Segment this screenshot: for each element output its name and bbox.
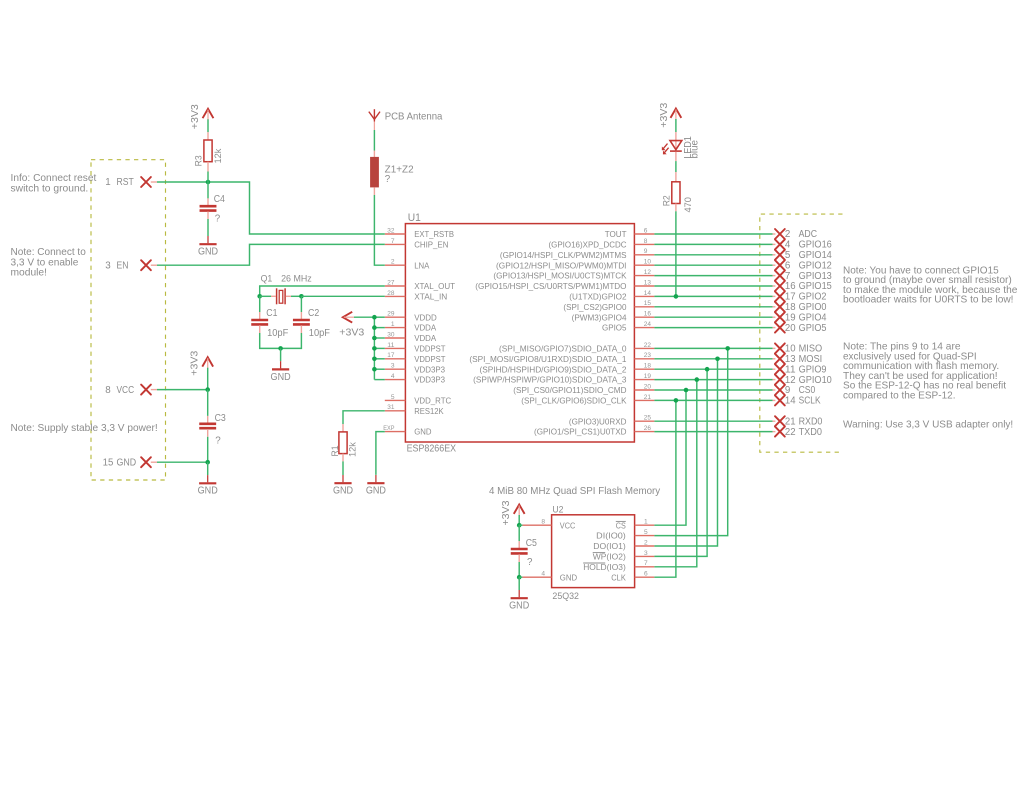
svg-text:GPIO15: GPIO15: [799, 281, 833, 292]
svg-text:VDDPST: VDDPST: [414, 354, 446, 364]
svg-text:2: 2: [644, 539, 648, 546]
wire net CS0 to header: [654, 389, 772, 391]
wire node to C1: [259, 296, 261, 312]
svg-text:19: 19: [785, 312, 796, 323]
wire net ADC to header: [654, 233, 772, 235]
svg-text:12k: 12k: [347, 442, 358, 457]
wire RST net to C4: [207, 182, 209, 198]
svg-text:8: 8: [541, 519, 545, 526]
pin C5 top lead: [518, 541, 520, 548]
pin C3 bottom lead: [207, 429, 209, 437]
wire antenna to Z1+Z2: [373, 130, 375, 151]
svg-text:LNA: LNA: [414, 260, 429, 270]
node CS0 junction: [684, 388, 689, 393]
pin U2 pin 1 stub: [635, 524, 655, 526]
pin TXD0 pin stub: [773, 431, 776, 433]
pin GPIO0 pin stub: [773, 306, 776, 308]
pin R3 bottom lead: [207, 162, 209, 172]
svg-text:12k: 12k: [212, 148, 223, 163]
svg-text:GND: GND: [333, 486, 353, 497]
label U2 overline WP(IO2): [593, 552, 606, 554]
pin GPIO10 pin stub: [773, 379, 776, 381]
svg-text:VDD3P3: VDD3P3: [414, 364, 445, 374]
IC U1 ESP8266EX box: [405, 224, 634, 442]
node MISO junction: [725, 346, 730, 351]
pin C4 bottom lead: [207, 212, 209, 220]
svg-text:C5: C5: [526, 538, 538, 549]
svg-text:GPIO9: GPIO9: [799, 364, 827, 375]
svg-text:(GPIO3)U0RXD: (GPIO3)U0RXD: [569, 416, 627, 426]
svg-text:7: 7: [785, 271, 790, 282]
pin CS0 pin stub: [773, 389, 776, 391]
wire net GPIO16 to header: [654, 243, 772, 245]
svg-text:VDDA: VDDA: [414, 333, 436, 343]
connector pin 7 GPIO13 (X): [775, 271, 785, 281]
pin U1 pin 13 stub: [634, 285, 654, 287]
wire net SCLK (U2 CLK): [654, 400, 676, 577]
svg-text:GND: GND: [366, 486, 386, 497]
svg-text:1: 1: [391, 321, 395, 328]
svg-text:EXP: EXP: [383, 425, 395, 432]
node VDD rail junction r9: [372, 325, 377, 330]
connector pin 13 MOSI (X): [775, 354, 785, 364]
pin Z1+Z2 top lead: [373, 151, 375, 158]
node VDD rail junction r12: [372, 357, 377, 362]
svg-text:EN: EN: [117, 260, 129, 271]
svg-text:1: 1: [105, 177, 110, 188]
pin MISO pin stub: [773, 347, 776, 349]
svg-text:GPIO2: GPIO2: [799, 292, 827, 303]
svg-text:10: 10: [785, 344, 796, 355]
wire node to C2: [300, 296, 302, 312]
svg-text:11: 11: [785, 364, 796, 375]
wire GND pin to node: [157, 461, 208, 463]
pin GPIO9 pin stub: [773, 368, 776, 370]
pin R2 top lead: [675, 172, 677, 182]
pin U2 pin 3 stub: [635, 555, 655, 557]
svg-text:32: 32: [387, 227, 395, 234]
wire GND node down: [207, 462, 209, 475]
pin U1 pin 6 stub: [634, 233, 654, 235]
wire net GPIO10 (U2 HOLD): [654, 380, 696, 567]
svg-text:+3V3: +3V3: [189, 350, 200, 375]
wire +3V3 to VCC node: [207, 368, 209, 390]
wire net MISO to header: [654, 347, 772, 349]
pin Q1 right lead: [286, 295, 291, 297]
pin GPIO5 pin stub: [773, 327, 776, 329]
capacitor C3: [199, 424, 216, 428]
connector pin 3 EN (X): [141, 260, 151, 270]
svg-text:RXD0: RXD0: [799, 416, 823, 427]
svg-text:Warning: Use 3,3 V USB adapter: Warning: Use 3,3 V USB adapter only!: [843, 420, 1013, 431]
svg-text:18: 18: [644, 363, 652, 370]
svg-text:(SPIWP/HSPIWP/GPIO10)SDIO_DATA: (SPIWP/HSPIWP/GPIO10)SDIO_DATA_3: [473, 375, 627, 385]
pin U1 pin 8 stub: [634, 243, 654, 245]
node GPIO10 junction: [695, 377, 700, 382]
pin U2 pin 6 stub: [635, 576, 655, 578]
pin GPIO2 pin stub: [773, 295, 776, 297]
connector pin 15 GND (X): [141, 457, 151, 467]
pin U1 pin 32 stub: [385, 233, 406, 235]
node RST/R3/C4 junction: [206, 180, 211, 185]
ground below C4: [199, 236, 216, 244]
pin U1 pin 4 stub: [385, 379, 406, 381]
wire +3V3 to R3: [207, 119, 209, 132]
wire +3V3 to VDDD: [354, 316, 374, 318]
svg-text:GPIO12: GPIO12: [799, 260, 832, 271]
pin R1 top lead: [342, 424, 344, 432]
svg-text:MISO: MISO: [799, 344, 823, 355]
wire +3V3 to LED1: [675, 119, 677, 132]
resistor R1 body: [339, 432, 347, 454]
svg-text:ADC: ADC: [799, 229, 817, 240]
wire net GPIO2 to header: [654, 295, 772, 297]
svg-text:17: 17: [785, 292, 796, 303]
svg-text:9: 9: [644, 248, 648, 255]
svg-text:+3V3: +3V3: [339, 327, 364, 338]
node C5/GND node: [517, 575, 522, 580]
svg-text:+3V3: +3V3: [501, 500, 512, 525]
wire VCC pin to node: [157, 389, 208, 391]
pin MOSI pin stub: [773, 358, 776, 360]
svg-text:18: 18: [785, 302, 796, 313]
wire net MOSI (U2 DO): [654, 359, 717, 546]
svg-text:GPIO4: GPIO4: [799, 312, 827, 323]
pin U1 pin 31 stub: [385, 410, 406, 412]
wire Z1+Z2 to LNA: [374, 195, 384, 265]
pin U1 pin 30 stub: [385, 337, 406, 339]
svg-text:3: 3: [644, 550, 648, 557]
connector pin 16 GPIO15 (X): [775, 281, 785, 291]
svg-text:RES12K: RES12K: [414, 406, 444, 416]
wire net GPIO0 to header: [654, 306, 772, 308]
svg-text:CS0: CS0: [799, 385, 816, 396]
wire node to VCC pin: [519, 524, 522, 526]
pin R3 top lead: [207, 132, 209, 140]
connector pin 5 GPIO14 (X): [775, 250, 785, 260]
svg-text:SCLK: SCLK: [799, 396, 821, 407]
svg-text:GPIO10: GPIO10: [799, 375, 833, 386]
wire node to Q1: [260, 295, 271, 297]
node SCLK junction: [674, 398, 679, 403]
connector pin 1 RST (X): [141, 177, 151, 187]
connector pin 17 GPIO2 (X): [775, 291, 785, 301]
svg-text:12: 12: [785, 375, 796, 386]
capacitor C1: [251, 320, 268, 324]
svg-text:8: 8: [105, 385, 111, 396]
pin GPIO13 pin stub: [773, 275, 776, 277]
pin U1 pin 3 stub: [385, 368, 406, 370]
svg-text:15: 15: [644, 300, 652, 307]
svg-text:Note: Connect to3,3 V to enabl: Note: Connect to3,3 V to enablemodule!: [11, 247, 87, 279]
svg-text:24: 24: [644, 321, 652, 328]
svg-text:7: 7: [391, 238, 395, 245]
svg-text:25: 25: [644, 415, 652, 422]
pin U1 pin 20 stub: [634, 389, 654, 391]
wire C1 to GND rail: [260, 333, 281, 348]
connector pin 2 ADC (X): [775, 229, 785, 239]
node C5/VCC node: [517, 523, 522, 528]
pin U1 pin 26 stub: [634, 431, 654, 433]
pin U1 pin 9 stub: [634, 254, 654, 256]
svg-text:C1: C1: [266, 308, 277, 319]
svg-text:GPIO5: GPIO5: [602, 323, 627, 333]
svg-text:4 MiB 80 MHz Quad SPI Flash Me: 4 MiB 80 MHz Quad SPI Flash Memory: [489, 486, 661, 497]
wire Q1 to node: [291, 295, 301, 297]
wire antenna lead: [373, 122, 375, 131]
svg-text:(GPIO1/SPI_CS1)U0TXD: (GPIO1/SPI_CS1)U0TXD: [534, 427, 627, 437]
svg-text:RST: RST: [117, 177, 134, 188]
svg-text:(PWM3)GPIO4: (PWM3)GPIO4: [572, 312, 627, 322]
pin SCLK pin stub: [773, 399, 776, 401]
svg-text:DI(IO0): DI(IO0): [596, 531, 626, 541]
pin U1 pin 29 stub: [385, 316, 406, 318]
connector pin 18 GPIO0 (X): [775, 302, 785, 312]
pin LED1 inner lead: [675, 141, 677, 151]
supply +3V3 above LED1: [671, 109, 682, 120]
svg-text:25Q32: 25Q32: [552, 591, 579, 601]
wire net RXD0 to header: [654, 420, 772, 422]
pin RXD0 pin stub: [773, 420, 776, 422]
svg-text:?: ?: [385, 174, 391, 185]
wire VDD rail to pin row 9: [374, 327, 384, 329]
svg-text:(SPI_MOSI/GPIO8/U1RXD)SDIO_DAT: (SPI_MOSI/GPIO8/U1RXD)SDIO_DATA_1: [469, 354, 626, 364]
svg-text:R2: R2: [661, 195, 672, 206]
svg-text:GND: GND: [414, 427, 431, 437]
right dashed frame (connector group, open right side): [760, 214, 843, 452]
svg-text:14: 14: [785, 396, 796, 407]
svg-text:VDD_RTC: VDD_RTC: [414, 396, 451, 406]
wire R2 to GPIO2 net: [675, 211, 677, 296]
svg-text:CLK: CLK: [611, 572, 626, 582]
pin ADC pin stub: [773, 233, 776, 235]
svg-text:VDDD: VDDD: [414, 312, 437, 322]
wire VCC node to C3: [207, 390, 209, 416]
svg-text:31: 31: [387, 404, 395, 411]
pin U1 pin 5 stub: [385, 399, 406, 401]
node XTAL GND node: [278, 346, 283, 351]
svg-text:21: 21: [644, 394, 652, 401]
svg-text:(GPIO14/HSPI_CLK/PWM2)MTMS: (GPIO14/HSPI_CLK/PWM2)MTMS: [500, 250, 627, 260]
pin C2 top lead: [300, 312, 302, 319]
svg-text:30: 30: [387, 331, 395, 338]
pin U1 pin 25 stub: [634, 420, 654, 422]
ground below C3: [199, 475, 216, 483]
connector pin 10 MISO (X): [775, 343, 785, 353]
svg-text:VCC: VCC: [117, 385, 135, 396]
pin U1 pin 11 stub: [385, 347, 406, 349]
wire XTAL_OUT net: [260, 286, 385, 296]
svg-text:26 MHz: 26 MHz: [281, 273, 312, 283]
wire net SCLK to header: [654, 399, 772, 401]
ground below C1 C2: [272, 361, 289, 369]
svg-text:C2: C2: [308, 308, 319, 319]
wire R3 to RST net: [207, 172, 209, 183]
node MOSI junction: [715, 357, 720, 362]
supply +3V3 above C5: [514, 505, 525, 516]
ground below R1: [334, 475, 351, 483]
wire RST to EXT_RSTB: [157, 182, 385, 234]
wire net GPIO9 to header: [654, 368, 772, 370]
wire VDD rail to pin row 10: [374, 337, 384, 339]
ground below C5: [511, 590, 528, 598]
pin U1 pin 22 stub: [634, 347, 654, 349]
pin U1 pin 10 stub: [634, 264, 654, 266]
wire net MISO (U2 DI): [654, 348, 727, 535]
connector pin 11 GPIO9 (X): [775, 364, 785, 374]
svg-text:6: 6: [644, 571, 648, 578]
pin C4 top lead: [207, 198, 209, 205]
svg-text:17: 17: [387, 352, 395, 359]
pin R2 bottom lead: [675, 204, 677, 212]
pin U1 pin 17 stub: [385, 358, 406, 360]
svg-text:XTAL_OUT: XTAL_OUT: [414, 281, 456, 291]
svg-text:PCB Antenna: PCB Antenna: [385, 112, 443, 123]
wire C4 to GND: [207, 219, 209, 236]
pin VCC pin stub: [151, 389, 157, 391]
svg-text:VDDPST: VDDPST: [414, 344, 446, 354]
svg-text:C3: C3: [215, 413, 227, 424]
capacitor C2: [293, 320, 310, 324]
svg-text:GND: GND: [198, 247, 218, 258]
svg-text:(SPIHD/HSPIHD/GPIO9)SDIO_DATA_: (SPIHD/HSPIHD/GPIO9)SDIO_DATA_2: [480, 364, 627, 374]
connector pin 12 GPIO10 (X): [775, 375, 785, 385]
svg-text:VDDA: VDDA: [414, 323, 436, 333]
connector pin 20 GPIO5 (X): [775, 323, 785, 333]
wire C2 to GND rail: [281, 333, 302, 348]
svg-text:Info: Connect resetswitch to g: Info: Connect resetswitch to ground.: [11, 173, 97, 194]
ground below EXP: [367, 475, 384, 483]
svg-text:(SPI_CLK/GPIO6)SDIO_CLK: (SPI_CLK/GPIO6)SDIO_CLK: [521, 396, 626, 406]
supply +3V3 VDD rail (left arrow): [343, 312, 354, 323]
svg-text:EXT_RSTB: EXT_RSTB: [414, 229, 454, 239]
svg-text:MOSI: MOSI: [799, 354, 823, 365]
pin U1 pin 2 stub: [385, 264, 406, 266]
wire node to C5: [518, 525, 520, 541]
pin Z1+Z2 bottom lead: [373, 187, 375, 195]
node VDD rail junction r11: [372, 346, 377, 351]
node VCC node: [205, 387, 210, 392]
svg-text:XTAL_IN: XTAL_IN: [414, 292, 447, 302]
svg-text:?: ?: [215, 214, 221, 225]
svg-text:4: 4: [391, 373, 395, 380]
svg-text:12: 12: [644, 269, 652, 276]
svg-text:U1: U1: [408, 212, 421, 224]
wire XTAL_IN net: [301, 295, 384, 297]
wire LED1 to R2: [675, 161, 677, 172]
node GPIO9 junction: [705, 367, 710, 372]
svg-text:27: 27: [387, 279, 395, 286]
node VDD rail junction r8: [372, 315, 377, 320]
svg-text:22: 22: [785, 427, 796, 438]
svg-text:CHIP_EN: CHIP_EN: [414, 240, 448, 250]
capacitor C5: [511, 549, 528, 553]
left dashed frame (connector group): [91, 160, 166, 480]
svg-text:GND: GND: [509, 601, 529, 612]
svg-text:1: 1: [644, 519, 648, 526]
connector pin 21 RXD0 (X): [775, 416, 785, 426]
wire node down: [518, 577, 520, 590]
svg-text:TOUT: TOUT: [605, 229, 628, 239]
pin U1 pin 24 stub: [634, 327, 654, 329]
svg-text:VDD3P3: VDD3P3: [414, 375, 445, 385]
svg-text:(GPIO13/HSPI_MOSI/U0CTS)MTCK: (GPIO13/HSPI_MOSI/U0CTS)MTCK: [493, 271, 626, 281]
svg-text:GPIO16: GPIO16: [799, 240, 833, 251]
connector pin 19 GPIO4 (X): [775, 312, 785, 322]
svg-text:20: 20: [785, 323, 796, 334]
svg-text:26: 26: [644, 425, 652, 432]
node crystal left node: [257, 294, 262, 299]
pin U1 pin 14 stub: [634, 295, 654, 297]
wire VDD rail to pin row 12: [374, 358, 384, 360]
wire net GPIO9 (U2 WP): [654, 369, 707, 556]
svg-text:16: 16: [644, 311, 652, 318]
svg-text:3: 3: [105, 260, 111, 271]
connector pin 14 SCLK (X): [775, 395, 785, 405]
pin GPIO4 pin stub: [773, 316, 776, 318]
wire EXP to GND: [376, 432, 385, 475]
svg-text:5: 5: [391, 394, 395, 401]
node VDD rail junction r10: [372, 336, 377, 341]
connector pin 9 CS0 (X): [775, 385, 785, 395]
svg-text:470: 470: [682, 197, 693, 212]
wire net GPIO10 to header: [654, 379, 772, 381]
svg-text:14: 14: [644, 290, 652, 297]
pin GPIO12 pin stub: [773, 264, 776, 266]
pin U2 pin 5 stub: [635, 535, 655, 537]
wire VDD rail to pin row 8: [374, 316, 384, 318]
wire C3 to GND node: [207, 437, 209, 462]
svg-text:Q1: Q1: [261, 273, 273, 283]
svg-text:10pF: 10pF: [309, 328, 330, 339]
supply +3V3 above C3: [202, 357, 213, 368]
pin GPIO14 pin stub: [773, 254, 776, 256]
svg-text:23: 23: [644, 352, 652, 359]
pin LED1 cathode lead: [675, 152, 677, 161]
svg-text:21: 21: [785, 416, 796, 427]
pin U2 pin 8 stub: [522, 524, 551, 526]
wire net GPIO13 to header: [654, 275, 772, 277]
supply +3V3 above R3: [203, 109, 214, 120]
svg-text:5: 5: [785, 250, 791, 261]
svg-text:(GPIO15/HSPI_CS/U0RTS/PWM1)MTD: (GPIO15/HSPI_CS/U0RTS/PWM1)MTDO: [475, 281, 626, 291]
pin RST pin stub: [151, 181, 157, 183]
pin C3 top lead: [207, 416, 209, 423]
pin U1 pin 15 stub: [634, 306, 654, 308]
label U2 overline HOLD(IO3): [583, 562, 605, 564]
svg-text:+3V3: +3V3: [659, 102, 670, 127]
wire net GPIO14 to header: [654, 254, 772, 256]
wire net GPIO4 to header: [654, 316, 772, 318]
svg-text:+3V3: +3V3: [190, 104, 201, 129]
wire node to GND pin: [519, 576, 522, 578]
wire VDD rail to pin row 13: [374, 368, 384, 370]
connector pin 22 TXD0 (X): [775, 427, 785, 437]
svg-text:3: 3: [391, 363, 395, 370]
svg-text:(GPIO12/HSPI_MISO/PWM0)MTDI: (GPIO12/HSPI_MISO/PWM0)MTDI: [496, 260, 627, 270]
node crystal right node: [299, 294, 304, 299]
pin U1 pin EXP stub: [385, 431, 406, 433]
pin C1 top lead: [259, 312, 261, 319]
svg-text:(U1TXD)GPIO2: (U1TXD)GPIO2: [569, 292, 626, 302]
pin C1 bottom lead: [259, 325, 261, 333]
svg-text:GPIO13: GPIO13: [799, 271, 833, 282]
svg-text:Note: Supply stable 3,3 V powe: Note: Supply stable 3,3 V power!: [11, 423, 158, 434]
svg-text:(SPI_CS2)GPIO0: (SPI_CS2)GPIO0: [563, 302, 626, 312]
wire net GPIO5 to header: [654, 327, 772, 329]
svg-text:8: 8: [644, 238, 648, 245]
svg-text:16: 16: [785, 281, 796, 292]
